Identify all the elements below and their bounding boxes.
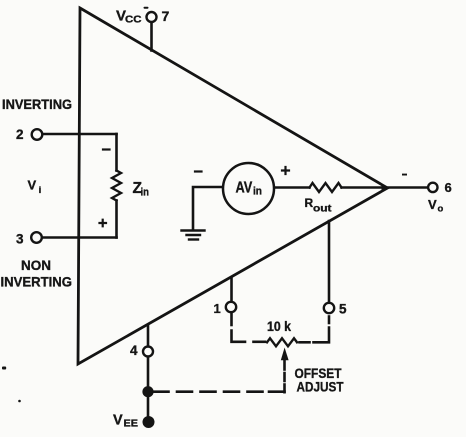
svg-text:V: V xyxy=(28,178,37,193)
svg-text:INVERTING: INVERTING xyxy=(2,96,72,112)
svg-text:in: in xyxy=(141,187,150,199)
svg-text:V: V xyxy=(113,413,123,429)
svg-text:7: 7 xyxy=(162,8,170,24)
svg-text:out: out xyxy=(313,204,332,215)
svg-text:CC: CC xyxy=(125,14,142,26)
svg-text:3: 3 xyxy=(16,232,24,247)
svg-text:AV: AV xyxy=(236,179,253,196)
svg-text:V: V xyxy=(428,197,437,212)
svg-text:2: 2 xyxy=(16,127,24,142)
svg-text:NON: NON xyxy=(21,257,51,273)
svg-text:i: i xyxy=(39,185,42,196)
svg-text:ADJUST: ADJUST xyxy=(297,379,344,395)
svg-text:4: 4 xyxy=(130,343,138,358)
svg-text:in: in xyxy=(253,186,262,198)
svg-text:6: 6 xyxy=(445,180,452,195)
svg-text:10 k: 10 k xyxy=(267,318,291,334)
svg-text:1: 1 xyxy=(214,301,221,316)
svg-text:EE: EE xyxy=(124,418,139,430)
svg-text:5: 5 xyxy=(339,302,347,317)
svg-text:INVERTING: INVERTING xyxy=(1,274,73,290)
svg-text:o: o xyxy=(438,204,444,215)
